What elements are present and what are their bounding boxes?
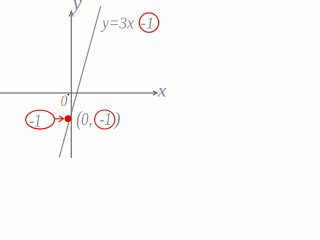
x-axis arrowhead bbox=[153, 91, 157, 95]
svg-text:y: y bbox=[71, 0, 83, 15]
red arrow to point bbox=[55, 118, 63, 120]
red ellipse around (0,-1)'s -1 bbox=[95, 110, 115, 129]
red ellipse around equation -1 bbox=[139, 13, 158, 32]
svg-text:x: x bbox=[157, 81, 167, 101]
y-axis bbox=[70, 11, 72, 158]
red ellipse around left -1 bbox=[26, 110, 55, 129]
stray dot bbox=[67, 94, 69, 96]
svg-text:0,: 0, bbox=[81, 109, 92, 129]
y-axis arrowhead bbox=[69, 11, 73, 16]
line y=3x-1 bbox=[59, 6, 100, 158]
svg-text:y=3x: y=3x bbox=[100, 13, 135, 32]
red point (0,-1) bbox=[65, 115, 72, 122]
x-axis bbox=[0, 92, 156, 94]
svg-text:0: 0 bbox=[61, 93, 68, 110]
